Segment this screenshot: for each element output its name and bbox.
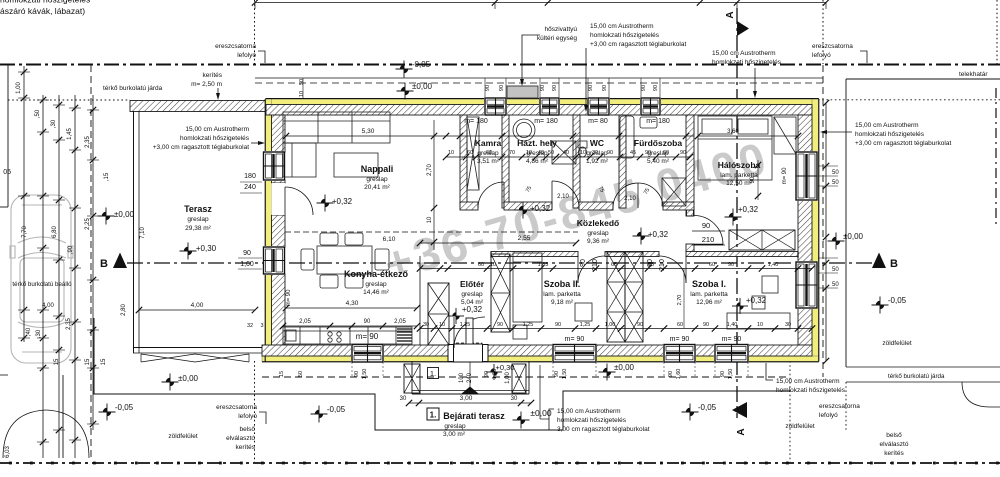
svg-text:7,70: 7,70: [22, 226, 28, 238]
svg-text:-0,05: -0,05: [327, 405, 346, 414]
svg-text:,30: ,30: [51, 119, 57, 128]
svg-text:Előtér: Előtér: [460, 279, 485, 289]
svg-text:15,00 cm Austrotherm: 15,00 cm Austrotherm: [185, 126, 249, 133]
svg-text:50: 50: [298, 371, 304, 377]
svg-text:30: 30: [400, 396, 407, 402]
svg-text:lefolyó: lefolyó: [812, 52, 831, 59]
svg-text:±0,00: ±0,00: [114, 210, 135, 219]
svg-text:2,35: 2,35: [85, 136, 91, 148]
svg-text:homlokzati hőszigetelés: homlokzati hőszigetelés: [590, 32, 660, 39]
svg-text:+0,32: +0,32: [462, 305, 483, 314]
svg-text:50: 50: [832, 267, 839, 273]
svg-text:15,00 cm Austrotherm: 15,00 cm Austrotherm: [590, 23, 654, 30]
svg-text:90: 90: [602, 85, 608, 91]
svg-text:greslap: greslap: [365, 281, 387, 288]
svg-text:m= 180: m= 180: [534, 118, 558, 125]
svg-text:2,35: 2,35: [66, 318, 72, 330]
svg-text:m= 90: m= 90: [670, 336, 690, 343]
svg-text:50: 50: [832, 282, 839, 288]
svg-text:10: 10: [526, 150, 532, 156]
svg-text:telekhatár: telekhatár: [959, 71, 988, 78]
svg-text:90: 90: [243, 250, 251, 257]
svg-text:Szoba II.: Szoba II.: [544, 279, 581, 289]
svg-text:90: 90: [728, 262, 734, 268]
svg-text:Közlekedő: Közlekedő: [577, 218, 620, 228]
svg-text:1,00: 1,00: [505, 372, 511, 384]
svg-text:-0,05: -0,05: [698, 403, 717, 412]
svg-text:4,30: 4,30: [346, 300, 359, 307]
svg-text:60: 60: [677, 322, 683, 328]
svg-text:-0,05: -0,05: [888, 296, 907, 305]
svg-text:2,10: 2,10: [624, 196, 636, 202]
svg-text:B: B: [890, 258, 898, 270]
svg-text:1,25: 1,25: [523, 322, 534, 328]
svg-text:3,00 cm ragasztott téglaburkol: 3,00 cm ragasztott téglaburkolat: [557, 426, 650, 433]
svg-text:belső: belső: [886, 432, 902, 439]
svg-text:+0,30: +0,30: [196, 244, 217, 253]
svg-text:ereszcsatorna: ereszcsatorna: [819, 403, 860, 410]
svg-text:lam. parketta: lam. parketta: [690, 291, 728, 298]
svg-text:-0,05: -0,05: [412, 60, 431, 69]
svg-text:1,50: 1,50: [362, 369, 368, 380]
svg-text:10: 10: [299, 91, 305, 97]
svg-text:A: A: [736, 428, 747, 435]
svg-text:homlokzati hőszigetelés: homlokzati hőszigetelés: [557, 417, 627, 424]
svg-text:90: 90: [588, 85, 594, 91]
svg-text:90: 90: [554, 371, 560, 377]
svg-text:homlokzati hőszigetelés: homlokzati hőszigetelés: [712, 59, 782, 66]
svg-text:+0,32: +0,32: [332, 197, 353, 206]
svg-text:4,86 m²: 4,86 m²: [526, 158, 549, 165]
svg-text:65: 65: [611, 262, 617, 268]
svg-text:Házt. hely: Házt. hely: [517, 138, 557, 148]
svg-text:-0,05: -0,05: [115, 403, 134, 412]
svg-text:90: 90: [653, 85, 659, 91]
svg-text:Terasz: Terasz: [184, 204, 212, 214]
svg-text:Nappali: Nappali: [361, 164, 394, 174]
svg-text:2,80: 2,80: [121, 304, 127, 316]
svg-text:,15: ,15: [104, 172, 110, 181]
svg-text:3,51 m²: 3,51 m²: [477, 158, 500, 165]
svg-text:B: B: [100, 258, 108, 270]
svg-text:12,50 m²: 12,50 m²: [726, 180, 752, 187]
svg-text:2,05: 2,05: [394, 319, 406, 325]
svg-text:4,00: 4,00: [42, 303, 54, 309]
svg-text:+0,32: +0,32: [738, 205, 759, 214]
svg-text:greslap: greslap: [366, 176, 388, 183]
svg-text:60: 60: [486, 150, 492, 156]
svg-text:90: 90: [702, 221, 710, 230]
svg-text:29,38 m²: 29,38 m²: [185, 225, 211, 232]
svg-text:1,50: 1,50: [492, 369, 498, 380]
svg-text:m= 90: m= 90: [356, 332, 379, 341]
svg-text:ereszcsatorna: ereszcsatorna: [216, 404, 257, 411]
svg-text:90: 90: [641, 85, 647, 91]
svg-text:90: 90: [680, 150, 686, 156]
svg-text:10: 10: [439, 322, 445, 328]
svg-text:5,40 m²: 5,40 m²: [647, 158, 670, 165]
svg-text:zöldfelület: zöldfelület: [882, 340, 911, 347]
svg-text:100: 100: [459, 372, 465, 383]
svg-text:±0,00: ±0,00: [412, 82, 433, 91]
svg-text:6,03: 6,03: [5, 446, 11, 458]
svg-text:m= 2,50 m: m= 2,50 m: [191, 81, 222, 88]
svg-text:10: 10: [757, 322, 763, 328]
svg-text:30: 30: [423, 322, 429, 328]
svg-text:240: 240: [467, 372, 473, 383]
svg-text:90: 90: [645, 150, 651, 156]
svg-text:homlokzati hőszigetelés: homlokzati hőszigetelés: [776, 387, 846, 394]
svg-text:homlokzati hőszigetelés: homlokzati hőszigetelés: [180, 135, 250, 142]
svg-text:90: 90: [703, 322, 709, 328]
svg-text:1,25: 1,25: [580, 322, 591, 328]
svg-text:15,00 cm Austrotherm: 15,00 cm Austrotherm: [712, 50, 776, 57]
svg-text:210: 210: [659, 259, 666, 271]
svg-text:15: 15: [85, 358, 91, 365]
svg-text:15: 15: [54, 358, 60, 365]
svg-text:90: 90: [485, 85, 491, 91]
svg-text:3,60: 3,60: [727, 129, 739, 135]
svg-text:50: 50: [832, 170, 839, 176]
svg-text:15: 15: [279, 371, 285, 377]
svg-text:ereszcsatorna: ereszcsatorna: [215, 43, 256, 50]
svg-text:40: 40: [563, 150, 569, 156]
svg-text:210: 210: [702, 235, 715, 244]
svg-text:lefolyó: lefolyó: [237, 52, 256, 59]
svg-text:180: 180: [244, 173, 256, 180]
svg-text:5,30: 5,30: [362, 128, 375, 135]
svg-text:,30: ,30: [36, 329, 42, 338]
svg-text:1,40: 1,40: [727, 322, 738, 328]
svg-text:50: 50: [299, 79, 305, 85]
svg-text:+3,00 cm ragasztott téglaburko: +3,00 cm ragasztott téglaburkolat: [153, 144, 249, 151]
svg-text:90: 90: [499, 85, 505, 91]
svg-text:90: 90: [540, 85, 546, 91]
svg-text:15,00 cm Austrotherm: 15,00 cm Austrotherm: [557, 408, 621, 415]
svg-text:7,10: 7,10: [140, 227, 146, 239]
svg-text:m= 180: m= 180: [646, 118, 670, 125]
svg-text:WC: WC: [590, 138, 604, 148]
svg-text:60: 60: [663, 150, 669, 156]
svg-text:,90: ,90: [68, 245, 74, 254]
svg-text:10: 10: [580, 150, 586, 156]
svg-text:elválasztó: elválasztó: [226, 435, 255, 442]
svg-text:1.: 1.: [430, 411, 437, 420]
svg-text:90: 90: [750, 176, 756, 183]
svg-text:60: 60: [467, 150, 473, 156]
svg-text:90: 90: [364, 319, 371, 325]
svg-text:térkő burkolatú beálló: térkő burkolatú beálló: [12, 281, 72, 288]
svg-text:1.: 1.: [430, 369, 436, 378]
svg-text:m= 80: m= 80: [588, 118, 608, 125]
svg-text:2,70: 2,70: [427, 164, 433, 176]
svg-text:60: 60: [478, 262, 484, 268]
svg-text:6,10: 6,10: [383, 236, 396, 243]
svg-text:1,45: 1,45: [67, 128, 73, 140]
svg-text:4,00: 4,00: [191, 302, 204, 309]
svg-text:05: 05: [3, 169, 11, 176]
svg-text:2,10: 2,10: [557, 194, 569, 200]
svg-text:14,46 m²: 14,46 m²: [363, 289, 389, 296]
svg-text:m= 90: m= 90: [565, 336, 585, 343]
svg-text:elválasztó: elválasztó: [880, 441, 909, 448]
svg-text:Kamra: Kamra: [475, 138, 502, 148]
svg-text:90: 90: [580, 259, 587, 267]
svg-text:+3,00 cm ragasztott téglaburko: +3,00 cm ragasztott téglaburkolat: [590, 41, 686, 48]
svg-text:,50: ,50: [35, 109, 41, 118]
svg-text:1,25: 1,25: [460, 322, 471, 328]
svg-text:Konyha-étkező: Konyha-étkező: [344, 269, 409, 279]
svg-text:90: 90: [484, 371, 490, 377]
svg-text:Fürdőszoba: Fürdőszoba: [634, 138, 682, 148]
svg-text:2,70: 2,70: [677, 295, 683, 306]
svg-text:m= 180: m= 180: [464, 118, 488, 125]
svg-text:Bejárati terasz: Bejárati terasz: [443, 411, 505, 421]
svg-text:greslap: greslap: [444, 423, 466, 430]
svg-text:kerítés: kerítés: [884, 450, 904, 457]
svg-text:homlokzati hőszigetelés: homlokzati hőszigetelés: [0, 0, 90, 5]
svg-text:70: 70: [509, 150, 515, 156]
svg-text:±0,00: ±0,00: [178, 374, 199, 383]
svg-text:15,00 cm Austrotherm: 15,00 cm Austrotherm: [855, 122, 919, 129]
svg-text:m= 90: m= 90: [286, 289, 292, 307]
svg-text:3,00 m²: 3,00 m²: [443, 431, 466, 438]
svg-text:greslap: greslap: [587, 230, 609, 237]
svg-text:9,18 m²: 9,18 m²: [551, 299, 574, 306]
svg-text:90: 90: [552, 85, 558, 91]
svg-text:belső: belső: [239, 426, 255, 433]
svg-text:+0,32: +0,32: [530, 204, 551, 213]
svg-text:30: 30: [511, 396, 518, 402]
svg-text:+0,32: +0,32: [648, 230, 669, 239]
svg-text:ászáró kávák, lábazat): ászáró kávák, lábazat): [0, 6, 85, 16]
svg-text:3: 3: [260, 323, 263, 329]
svg-text:15: 15: [101, 358, 107, 365]
svg-text:+3,00 cm ragasztott téglaburko: +3,00 cm ragasztott téglaburkolat: [855, 140, 951, 147]
svg-text:10: 10: [448, 150, 454, 156]
svg-text:90: 90: [497, 322, 503, 328]
svg-text:1,85: 1,85: [538, 262, 549, 268]
svg-text:6,80: 6,80: [52, 226, 58, 238]
svg-text:90: 90: [607, 150, 613, 156]
svg-text:A: A: [725, 11, 736, 18]
svg-text:12,96 m²: 12,96 m²: [696, 299, 722, 306]
svg-text:32: 32: [247, 323, 253, 329]
svg-text:Szoba I.: Szoba I.: [692, 279, 726, 289]
svg-text:+0,30: +0,30: [496, 363, 515, 372]
svg-text:Hálószoba: Hálószoba: [718, 160, 761, 170]
svg-text:kerítés: kerítés: [235, 444, 255, 451]
svg-text:zöldfelület: zöldfelület: [785, 423, 814, 430]
svg-text:50: 50: [548, 150, 554, 156]
svg-text:9,36 m²: 9,36 m²: [587, 238, 610, 245]
svg-text:kerítés: kerítés: [202, 72, 222, 79]
svg-text:1,50: 1,50: [728, 369, 734, 380]
svg-text:30: 30: [785, 322, 791, 328]
svg-text:greslap: greslap: [187, 216, 209, 223]
svg-text:greslap: greslap: [461, 291, 483, 298]
svg-text:60: 60: [709, 262, 715, 268]
svg-text:1,40: 1,40: [768, 262, 779, 268]
svg-text:±0,00: ±0,00: [614, 363, 635, 372]
svg-text:1,60: 1,60: [240, 261, 254, 268]
svg-text:homlokzati hőszigetelés: homlokzati hőszigetelés: [855, 131, 925, 138]
svg-text:ereszcsatorna: ereszcsatorna: [812, 43, 853, 50]
svg-text:90: 90: [720, 371, 726, 377]
svg-text:90: 90: [668, 371, 674, 377]
svg-text:±0,00: ±0,00: [843, 232, 864, 241]
svg-text:10: 10: [490, 262, 496, 268]
svg-text:3,00: 3,00: [460, 395, 473, 402]
svg-text:20,41 m²: 20,41 m²: [364, 184, 390, 191]
svg-text:2,05: 2,05: [299, 319, 311, 325]
svg-text:90: 90: [555, 322, 561, 328]
svg-text:10: 10: [427, 216, 433, 223]
svg-text:lefolyó: lefolyó: [238, 413, 257, 420]
svg-text:zöldfelület: zöldfelület: [168, 433, 197, 440]
svg-text:240: 240: [244, 184, 256, 191]
svg-text:50: 50: [832, 180, 839, 186]
svg-text:40: 40: [538, 150, 544, 156]
svg-text:45: 45: [630, 150, 636, 156]
svg-text:hőszivattyú: hőszivattyú: [544, 26, 577, 33]
svg-text:m= 90: m= 90: [782, 167, 788, 185]
svg-text:,40: ,40: [26, 327, 32, 336]
svg-text:1,00: 1,00: [605, 322, 616, 328]
svg-text:lefolyó: lefolyó: [819, 412, 838, 419]
svg-text:1,50: 1,50: [562, 369, 568, 380]
svg-text:kültéri egység: kültéri egység: [537, 35, 577, 42]
svg-text:1,60: 1,60: [676, 369, 682, 380]
svg-text:30: 30: [592, 150, 598, 156]
svg-text:lam. parketta: lam. parketta: [543, 291, 581, 298]
svg-text:90: 90: [354, 371, 360, 377]
svg-text:90: 90: [637, 322, 643, 328]
svg-text:2,25: 2,25: [85, 218, 91, 230]
svg-text:térkő burkolatú járda: térkő burkolatú járda: [103, 85, 163, 92]
svg-text:+0,32: +0,32: [746, 296, 767, 305]
svg-text:m= 90: m= 90: [722, 336, 742, 343]
svg-text:15,00 cm Austrotherm: 15,00 cm Austrotherm: [776, 378, 840, 385]
svg-text:1,00: 1,00: [16, 82, 22, 94]
svg-text:térkő burkolatú járda: térkő burkolatú járda: [888, 373, 945, 380]
svg-text:65: 65: [648, 262, 654, 268]
svg-text:2,55: 2,55: [518, 235, 531, 242]
